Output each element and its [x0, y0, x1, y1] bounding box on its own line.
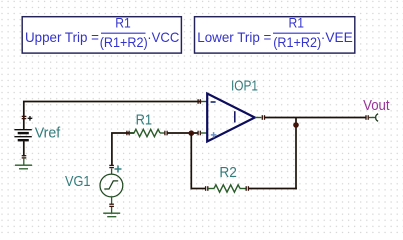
- ground below VG1: [103, 207, 120, 217]
- pin tick VG1 bottom: [109, 204, 114, 206]
- wire R1 right to plus junction: [167, 132, 198, 134]
- wire top rail from battery to op-amp minus: [24, 102, 202, 130]
- battery plus sign: [28, 116, 33, 121]
- formula box Upper Trip: [22, 14, 181, 53]
- resistor R2 zigzag: [214, 185, 240, 192]
- pin tick R1 left: [127, 131, 129, 136]
- op-amp plus symbol: [211, 132, 217, 138]
- wire output vertical to R2: [295, 118, 297, 190]
- wire green stub minus input: [201, 101, 207, 103]
- svg-text:Vout: Vout: [363, 97, 390, 114]
- Vout pin hook: [376, 114, 378, 122]
- svg-text:Vref: Vref: [35, 125, 61, 142]
- svg-text:R1: R1: [289, 14, 305, 30]
- wire R2 row left: [191, 188, 205, 190]
- ground below battery: [15, 158, 32, 169]
- pin tick Vout: [366, 115, 368, 120]
- svg-text:(R1+R2): (R1+R2): [100, 34, 148, 50]
- wire R1 left corner down to VG1: [112, 133, 134, 166]
- op-amp internal I bar: [234, 111, 236, 122]
- junction node output: [293, 122, 299, 128]
- wire R2 right to output vertical: [249, 188, 297, 190]
- svg-text:R2: R2: [219, 164, 237, 181]
- VG1 waveform: [104, 181, 118, 189]
- green stub R1 left: [130, 132, 135, 134]
- formula box Lower Trip: [195, 14, 355, 53]
- op-amp minus symbol: [211, 101, 216, 103]
- wire VG1 top stub: [111, 169, 113, 175]
- wire feedback vertical left: [190, 133, 192, 189]
- svg-text:VG1: VG1: [65, 173, 91, 190]
- pin tick op-amp output: [262, 115, 264, 120]
- svg-text:Upper Trip =: Upper Trip =: [25, 29, 99, 45]
- pin tick op-amp plus input: [198, 131, 200, 136]
- junction node plus input: [189, 130, 195, 136]
- pin tick R1 right: [165, 131, 167, 136]
- pin tick VG1 top: [109, 165, 114, 167]
- pin tick battery top: [22, 116, 27, 118]
- pin tick battery bottom: [22, 156, 27, 158]
- svg-text:Lower Trip =: Lower Trip =: [197, 29, 271, 45]
- wire battery bottom: [23, 141, 25, 157]
- svg-text:IOP1: IOP1: [231, 77, 258, 94]
- svg-text:·VCC: ·VCC: [147, 29, 179, 45]
- green stub op-amp output: [255, 117, 262, 119]
- wire output horizontal: [265, 117, 366, 119]
- pin tick R2 right: [246, 186, 248, 191]
- svg-text:(R1+R2): (R1+R2): [273, 34, 321, 50]
- green stub plus input: [201, 132, 207, 134]
- green stub R2 right: [240, 188, 246, 190]
- generator VG1 circle: [100, 174, 123, 197]
- svg-text:R1: R1: [136, 112, 153, 129]
- svg-text:·VEE: ·VEE: [321, 29, 353, 45]
- wire VG1 bottom stub: [111, 197, 113, 204]
- VG1 plus sign: [115, 166, 122, 173]
- svg-text:R1: R1: [115, 14, 131, 30]
- green stub Vout pin: [369, 117, 376, 119]
- resistor R1 zigzag: [134, 129, 160, 136]
- pin tick R2 left: [206, 186, 208, 191]
- op-amp IOP1 triangle: [207, 94, 255, 142]
- battery Vref plates: [14, 130, 31, 141]
- green stub R1 right: [160, 132, 165, 134]
- green stub R2 left: [208, 188, 214, 190]
- pin tick op-amp minus input: [198, 99, 200, 104]
